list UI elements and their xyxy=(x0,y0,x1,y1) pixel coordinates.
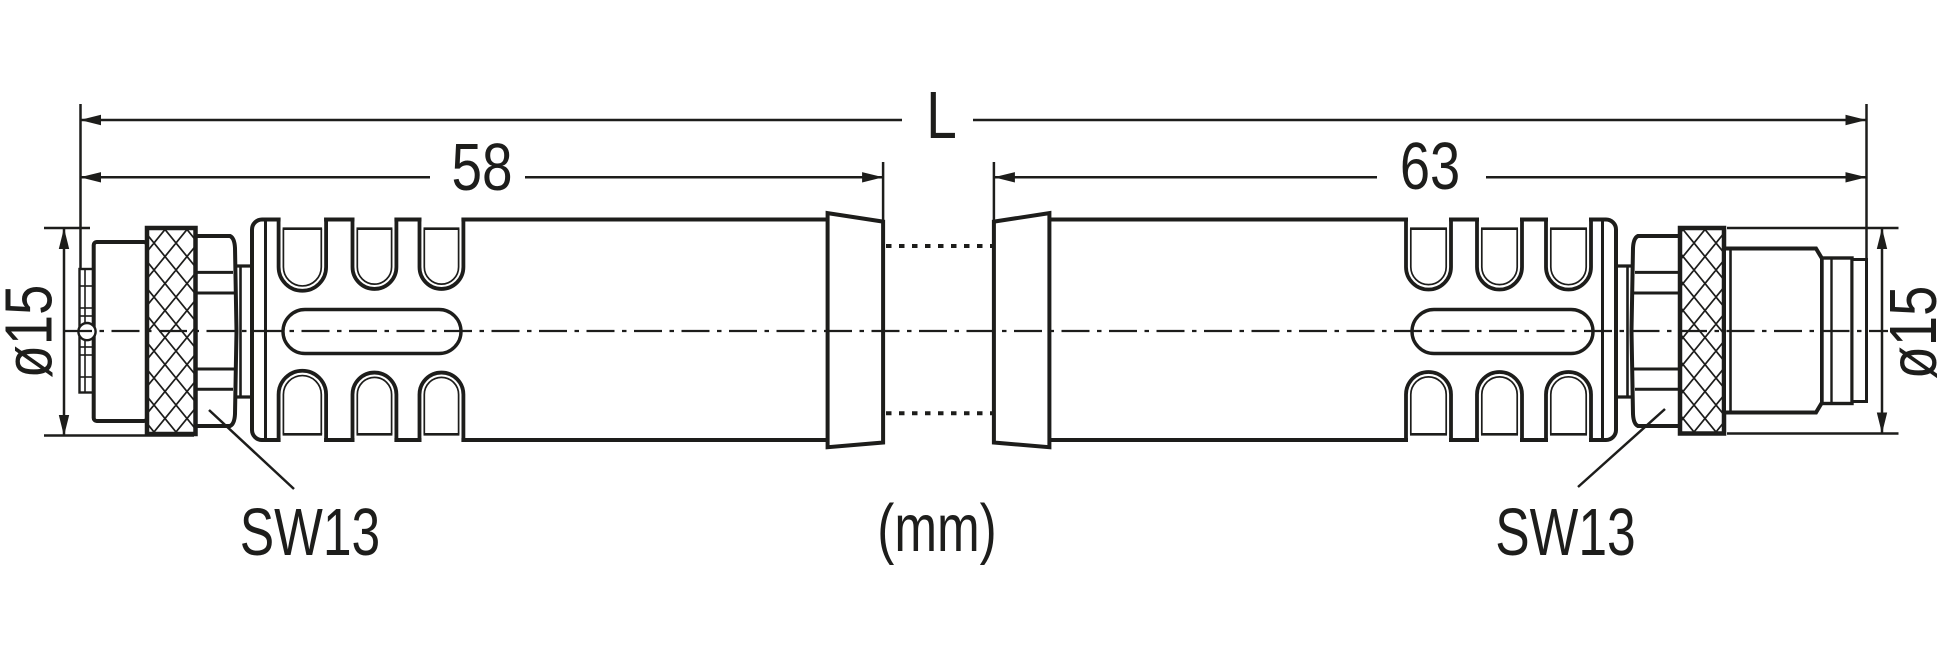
svg-text:SW13: SW13 xyxy=(1495,494,1635,569)
svg-text:ø15: ø15 xyxy=(0,285,66,378)
svg-text:SW13: SW13 xyxy=(240,494,380,569)
svg-text:58: 58 xyxy=(451,130,512,204)
svg-text:63: 63 xyxy=(1400,129,1460,204)
svg-text:(mm): (mm) xyxy=(877,490,996,565)
svg-text:L: L xyxy=(926,78,957,152)
svg-text:ø15: ø15 xyxy=(1876,286,1946,379)
